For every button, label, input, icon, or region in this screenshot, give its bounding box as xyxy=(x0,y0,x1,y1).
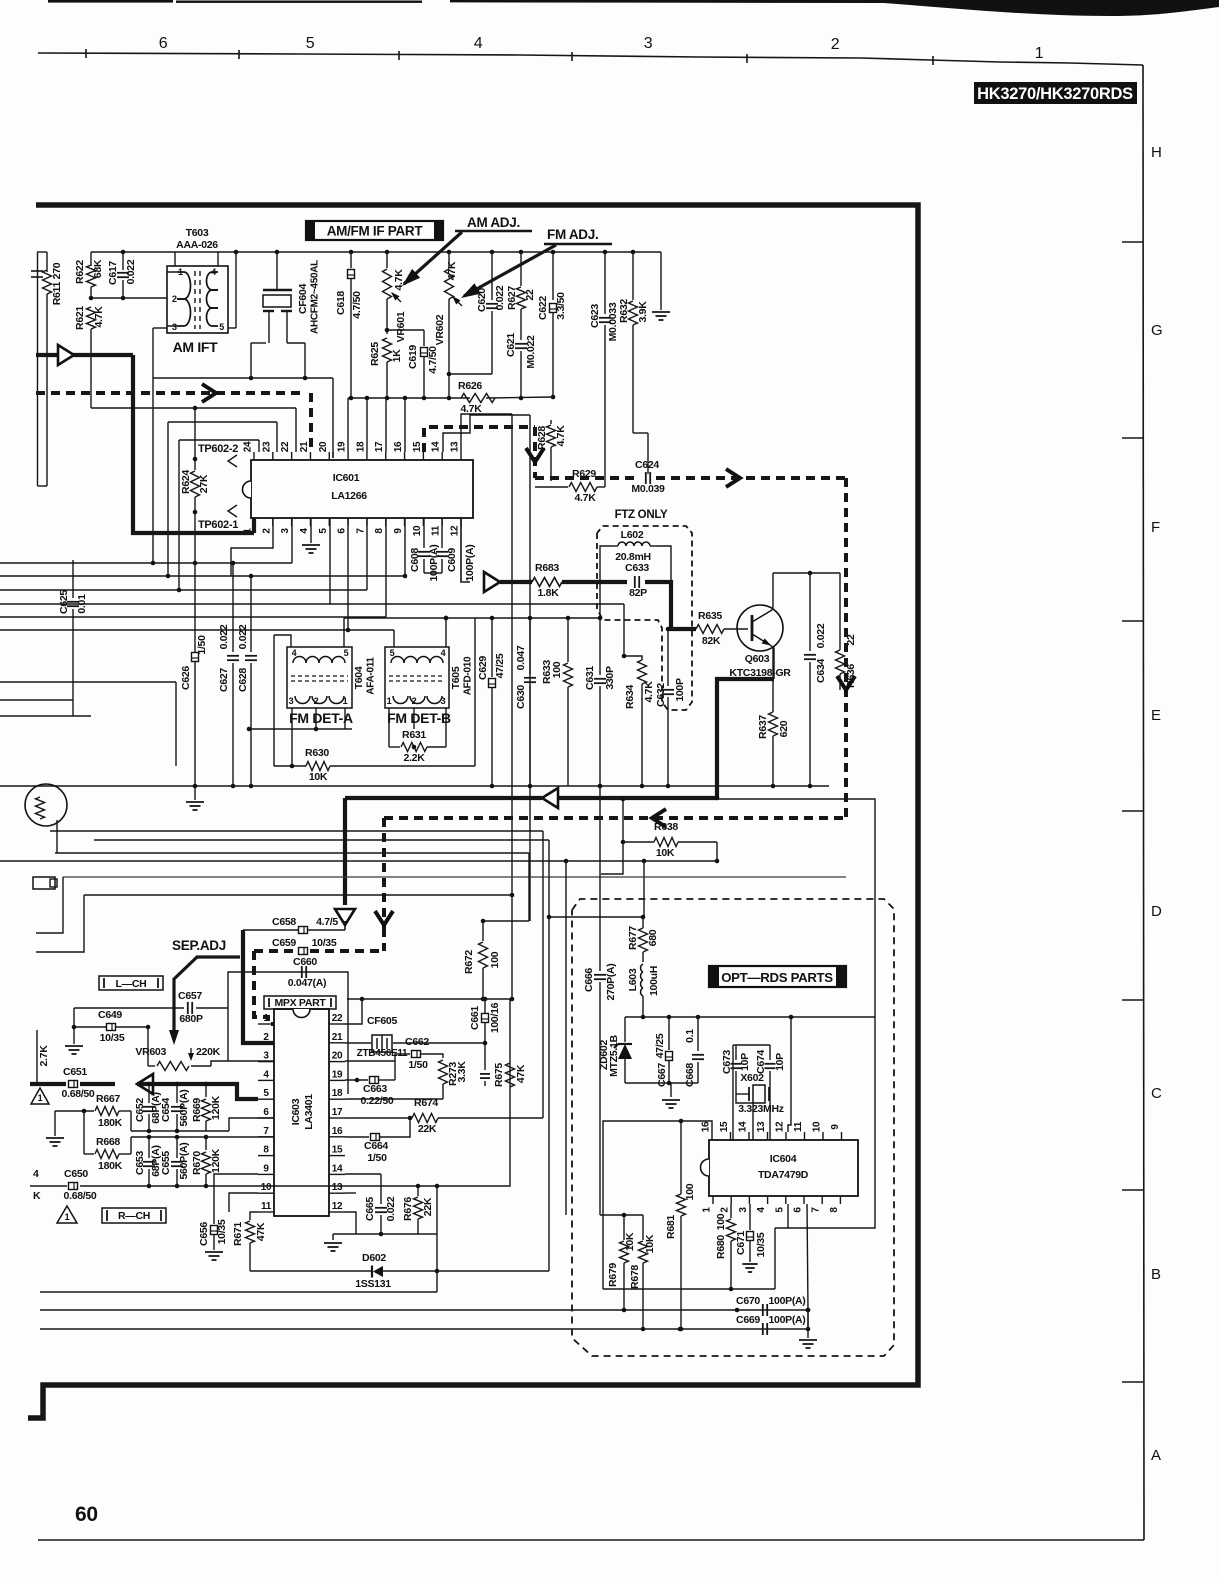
svg-text:120K: 120K xyxy=(210,1148,222,1173)
right page border xyxy=(1143,65,1144,1540)
svg-text:3: 3 xyxy=(172,322,177,332)
svg-text:E: E xyxy=(1151,707,1161,724)
svg-text:3.3/50: 3.3/50 xyxy=(555,292,567,320)
svg-text:C617: C617 xyxy=(107,261,119,285)
svg-text:C657: C657 xyxy=(178,990,202,1002)
svg-text:8: 8 xyxy=(263,1145,269,1156)
wire pin12 to gnd bus xyxy=(345,1212,356,1234)
svg-text:0.047(A): 0.047(A) xyxy=(288,977,326,989)
svg-text:2: 2 xyxy=(172,294,177,304)
svg-text:M0.022: M0.022 xyxy=(525,335,537,369)
capacitor C663 0.22/50 xyxy=(345,1079,368,1081)
svg-text:4: 4 xyxy=(211,267,216,277)
IC604 top pin stubs and numbers xyxy=(711,1132,713,1140)
svg-text:14: 14 xyxy=(738,1121,749,1132)
svg-text:C633: C633 xyxy=(625,562,649,574)
svg-text:5: 5 xyxy=(318,528,329,534)
svg-text:19: 19 xyxy=(332,1069,343,1080)
svg-text:7: 7 xyxy=(811,1207,822,1213)
T605 pin4 riser xyxy=(445,618,447,647)
resistor R633 100 xyxy=(567,618,569,662)
T604 pin1/3 legs xyxy=(291,708,293,766)
wire top rail xyxy=(91,251,661,253)
wire pin16 riser xyxy=(404,398,406,452)
page top edge bar middle xyxy=(176,1,422,3)
svg-text:HK3270/HK3270RDS: HK3270/HK3270RDS xyxy=(977,85,1133,103)
svg-text:C618: C618 xyxy=(335,291,347,315)
svg-text:R638: R638 xyxy=(654,821,678,833)
svg-text:11: 11 xyxy=(431,525,442,536)
svg-text:17: 17 xyxy=(374,441,385,452)
resistor R637 620 xyxy=(772,648,774,712)
resistor R680 100 xyxy=(730,1204,732,1218)
svg-text:100/16: 100/16 xyxy=(489,1002,501,1033)
long vertical pin14 net xyxy=(529,415,531,921)
svg-text:TP602-1: TP602-1 xyxy=(198,519,238,531)
svg-text:C652: C652 xyxy=(134,1098,146,1122)
resistor R677 680 xyxy=(642,917,644,928)
svg-text:4: 4 xyxy=(263,1069,269,1080)
svg-text:13: 13 xyxy=(756,1121,767,1132)
wire left bus 700 xyxy=(0,699,73,701)
svg-text:10K: 10K xyxy=(644,1234,656,1253)
svg-text:C662: C662 xyxy=(405,1036,429,1048)
capacitor C666 270P(A) xyxy=(599,786,601,971)
svg-text:22: 22 xyxy=(845,634,857,646)
grid ticks on right border xyxy=(1122,241,1143,243)
capacitor C654 560P(A) xyxy=(176,1084,178,1103)
ground IC601 pin4 xyxy=(310,518,312,543)
svg-text:560P(A): 560P(A) xyxy=(178,1090,190,1127)
svg-text:LA3401: LA3401 xyxy=(303,1094,315,1130)
svg-text:5: 5 xyxy=(774,1207,785,1213)
T604 pin4 riser xyxy=(274,635,291,647)
svg-text:LA1266: LA1266 xyxy=(331,490,367,502)
svg-text:4: 4 xyxy=(33,1168,39,1180)
wire VR602/C620 bottom loop xyxy=(449,373,492,375)
wire R632 to C624 xyxy=(633,432,648,434)
resistor R273 3.3K xyxy=(439,1060,448,1084)
model badge HK3270/HK3270RDS xyxy=(974,82,1137,104)
svg-text:0.022: 0.022 xyxy=(237,624,249,649)
resistor R626 4.7K xyxy=(461,394,495,403)
svg-text:C659: C659 xyxy=(272,937,296,949)
wire crystal bottom to pin14 xyxy=(736,1094,753,1140)
resistor R681 100 xyxy=(680,1121,682,1194)
svg-text:L—CH: L—CH xyxy=(116,978,147,990)
IC603 left pin stubs and numbers xyxy=(258,1023,274,1025)
svg-text:AFA-011: AFA-011 xyxy=(366,657,377,695)
capacitor C659 10/35 on dashed line xyxy=(299,948,308,955)
capacitor C653 68P(A) xyxy=(148,1137,150,1158)
wire pin24 feed xyxy=(179,439,259,441)
wire L602 left leg to C631 column xyxy=(600,546,612,583)
VR603 wiper xyxy=(190,1048,192,1058)
svg-text:FM DET-B: FM DET-B xyxy=(387,710,451,726)
svg-text:3: 3 xyxy=(738,1207,749,1213)
wire R668 riser to pin7 wire xyxy=(130,1137,132,1154)
resistor R669 120K xyxy=(205,1084,207,1097)
svg-text:C656: C656 xyxy=(198,1222,210,1246)
IC601 top pin stubs and numbers xyxy=(253,452,255,460)
svg-text:180K: 180K xyxy=(98,1160,123,1172)
resistor R627 22 xyxy=(520,252,522,286)
svg-text:R670: R670 xyxy=(191,1151,203,1175)
svg-text:2: 2 xyxy=(261,528,272,534)
svg-text:4: 4 xyxy=(474,35,483,52)
wire L602 right leg xyxy=(656,546,671,582)
capacitor C664 1/50 xyxy=(371,1134,380,1141)
resistor R630 10K xyxy=(274,765,306,767)
wire thin 799 to OPT rail xyxy=(717,799,875,1017)
dashed corner down with V arrow xyxy=(533,427,537,478)
svg-text:5: 5 xyxy=(306,35,315,52)
svg-text:OPT—RDS PARTS: OPT—RDS PARTS xyxy=(721,970,833,985)
boxed label R-CH xyxy=(102,1208,166,1223)
svg-text:4.7/5: 4.7/5 xyxy=(316,916,338,928)
svg-text:0.68/50: 0.68/50 xyxy=(62,1088,95,1100)
svg-text:100: 100 xyxy=(715,1213,727,1230)
svg-text:4.7K: 4.7K xyxy=(643,681,655,703)
svg-text:K: K xyxy=(33,1190,41,1202)
wire OPT right rail xyxy=(775,1017,875,1228)
svg-text:C632: C632 xyxy=(655,683,667,707)
svg-text:AM IFT: AM IFT xyxy=(173,339,219,355)
svg-text:R622: R622 xyxy=(74,260,86,284)
wire IC603 pin22 riser xyxy=(345,999,362,1024)
wire pin12 to thick FM out xyxy=(461,518,470,582)
svg-text:11: 11 xyxy=(261,1201,272,1212)
capacitor C652 68P(A) xyxy=(148,1084,150,1103)
dashed vertical right with V arrow xyxy=(844,478,848,818)
resistor R628 4.7K xyxy=(550,420,552,424)
wire OPT top rail xyxy=(625,1016,875,1018)
svg-text:220K: 220K xyxy=(196,1046,221,1058)
resistor R675 47K xyxy=(506,1063,515,1087)
svg-text:21: 21 xyxy=(332,1032,343,1043)
svg-text:47/25: 47/25 xyxy=(654,1033,666,1058)
vertical 566 net xyxy=(565,861,567,1215)
wire RDS data line C669 xyxy=(40,1328,808,1330)
dashed signal into pin21 xyxy=(36,391,305,395)
ceramic filter CF604 AHCFM2-450AL xyxy=(276,252,278,290)
svg-text:3.323MHz: 3.323MHz xyxy=(738,1103,784,1115)
svg-text:4.7/50: 4.7/50 xyxy=(351,291,363,319)
svg-text:4.7/50: 4.7/50 xyxy=(427,346,439,374)
resistor R679 10K xyxy=(600,1214,643,1216)
svg-text:14: 14 xyxy=(431,441,442,452)
svg-text:C670: C670 xyxy=(736,1295,760,1307)
svg-text:47K: 47K xyxy=(446,261,458,280)
svg-text:8: 8 xyxy=(374,528,385,534)
T605 legs to R631 loop xyxy=(388,708,390,747)
svg-text:B: B xyxy=(1151,1266,1161,1283)
svg-text:20.8mH: 20.8mH xyxy=(615,551,651,563)
svg-text:1K: 1K xyxy=(391,349,403,363)
svg-text:R629: R629 xyxy=(572,468,596,480)
svg-text:2.2K: 2.2K xyxy=(404,752,426,764)
wire left vertical 168 xyxy=(167,422,169,576)
capacitor C673 10P xyxy=(735,1045,737,1060)
svg-text:C660: C660 xyxy=(293,956,317,968)
connector stub box at left edge xyxy=(33,877,55,889)
resistor R632 3.9K xyxy=(632,252,634,300)
T603 pin1 xyxy=(174,252,176,266)
dashed wire pin15 riser xyxy=(424,427,535,452)
svg-text:15: 15 xyxy=(412,441,423,452)
svg-text:AHCFM2~450AL: AHCFM2~450AL xyxy=(310,260,321,334)
svg-text:100: 100 xyxy=(489,951,501,968)
VR601 wiper arrow xyxy=(392,293,401,302)
svg-text:47/25: 47/25 xyxy=(494,653,506,678)
svg-text:Q603: Q603 xyxy=(745,653,770,665)
svg-text:15: 15 xyxy=(332,1145,343,1156)
svg-text:2: 2 xyxy=(412,696,417,706)
svg-text:100P(A): 100P(A) xyxy=(769,1314,806,1326)
svg-text:0.022: 0.022 xyxy=(218,624,230,649)
thick FM IF output with arrow xyxy=(484,572,500,592)
schematic thick border xyxy=(28,205,918,1418)
svg-text:G: G xyxy=(1151,322,1162,339)
svg-text:6: 6 xyxy=(793,1207,804,1213)
svg-text:14: 14 xyxy=(332,1163,343,1174)
svg-text:560P(A): 560P(A) xyxy=(178,1143,190,1180)
wire bus 831 xyxy=(50,830,543,832)
IC601 bottom pin stubs and numbers xyxy=(253,518,255,526)
svg-text:C619: C619 xyxy=(407,345,419,369)
wire MPX bottom gnd bus xyxy=(333,1233,437,1235)
svg-text:FM DET-A: FM DET-A xyxy=(289,710,353,726)
resistor R634 4.7K xyxy=(623,604,625,656)
svg-text:17: 17 xyxy=(332,1107,343,1118)
svg-text:1: 1 xyxy=(65,1212,70,1222)
warning triangle 1 left xyxy=(31,1088,49,1104)
svg-text:VR603: VR603 xyxy=(135,1046,166,1058)
svg-text:2: 2 xyxy=(314,696,319,706)
svg-text:8: 8 xyxy=(829,1207,840,1213)
capacitor C631 330P xyxy=(599,583,601,675)
svg-text:22K: 22K xyxy=(422,1197,434,1216)
node R622/C617/T603p2 xyxy=(89,296,94,301)
svg-text:82K: 82K xyxy=(702,635,721,647)
wire pin5 drop xyxy=(787,1204,789,1228)
capacitor C656 10/35 xyxy=(211,1226,218,1235)
svg-text:9: 9 xyxy=(393,528,404,534)
svg-text:SEP.ADJ: SEP.ADJ xyxy=(172,938,226,953)
potentiometer VR603 220K xyxy=(147,1027,149,1066)
svg-text:620: 620 xyxy=(778,720,790,737)
svg-text:21: 21 xyxy=(299,441,310,452)
svg-text:FM ADJ.: FM ADJ. xyxy=(547,227,598,242)
svg-text:15: 15 xyxy=(719,1121,730,1132)
ruler ticks xyxy=(85,49,87,58)
wire bus 895 xyxy=(84,894,512,896)
ground det bus xyxy=(194,786,196,800)
T604 pin2 wire down xyxy=(315,708,317,729)
svg-text:3: 3 xyxy=(441,696,446,706)
svg-text:10: 10 xyxy=(261,1182,272,1193)
svg-text:10/35: 10/35 xyxy=(216,1219,228,1244)
wire C670 right to ground col xyxy=(807,1310,809,1329)
svg-text:C674: C674 xyxy=(755,1050,767,1074)
svg-text:0.022: 0.022 xyxy=(125,259,137,284)
capacitor C623 M0.0033 xyxy=(604,252,606,314)
svg-text:18: 18 xyxy=(332,1088,343,1099)
wire bus 840 xyxy=(94,839,549,841)
svg-text:R628: R628 xyxy=(536,426,548,450)
wire T603 pin3 down-right xyxy=(152,328,154,378)
T604 pin5 riser xyxy=(343,618,345,647)
wire into OPT R677 xyxy=(549,916,643,918)
label box AM/FM IF PART xyxy=(306,221,443,240)
wire bus 853 xyxy=(55,852,529,854)
svg-text:11: 11 xyxy=(793,1121,804,1132)
svg-text:0.1: 0.1 xyxy=(684,1029,696,1043)
wire left drop to C649 xyxy=(73,1008,75,1027)
svg-text:R637: R637 xyxy=(757,715,769,739)
wire thick from left to IC601 pin1 xyxy=(36,353,133,357)
wire loop right of IC603 xyxy=(437,999,512,1186)
svg-text:VR601: VR601 xyxy=(395,311,407,342)
svg-text:12: 12 xyxy=(775,1121,786,1132)
svg-text:12: 12 xyxy=(450,525,461,536)
svg-text:R636: R636 xyxy=(845,664,857,688)
svg-text:C654: C654 xyxy=(160,1098,172,1122)
svg-text:4.7K: 4.7K xyxy=(93,306,105,328)
svg-text:C669: C669 xyxy=(736,1314,760,1326)
svg-text:330P: 330P xyxy=(604,666,616,690)
T603 core dashes xyxy=(194,271,196,329)
svg-text:AAA-026: AAA-026 xyxy=(176,239,218,251)
svg-text:2: 2 xyxy=(263,1032,269,1043)
svg-text:TP602-2: TP602-2 xyxy=(198,443,238,455)
svg-text:C650: C650 xyxy=(64,1168,88,1180)
svg-text:27K: 27K xyxy=(198,474,210,493)
Q603 collector top rail xyxy=(773,572,840,574)
ground MPX bottom xyxy=(332,1234,334,1240)
svg-text:C663: C663 xyxy=(363,1083,387,1095)
svg-text:R676: R676 xyxy=(402,1197,414,1221)
svg-text:100: 100 xyxy=(551,661,563,678)
thick input C651 line xyxy=(30,1082,66,1086)
wire IC603 pin7 xyxy=(131,1136,274,1138)
svg-text:1: 1 xyxy=(178,267,183,277)
capacitor C662 1/50 xyxy=(412,1051,421,1058)
svg-text:C608: C608 xyxy=(409,548,421,572)
resistor R631 2.2K xyxy=(389,746,400,748)
svg-text:4.7K: 4.7K xyxy=(461,403,483,415)
svg-text:3: 3 xyxy=(289,696,294,706)
T603 pin5 xyxy=(228,327,236,329)
svg-text:12: 12 xyxy=(332,1201,343,1212)
svg-text:10K: 10K xyxy=(624,1232,636,1251)
resistor R672 100 xyxy=(482,921,484,941)
svg-text:C629: C629 xyxy=(477,656,489,680)
svg-text:R680: R680 xyxy=(715,1235,727,1259)
svg-text:2: 2 xyxy=(831,36,840,53)
svg-text:FTZ ONLY: FTZ ONLY xyxy=(615,509,668,521)
capacitor C661 100/16 xyxy=(482,1014,489,1023)
svg-text:100P(A): 100P(A) xyxy=(769,1295,806,1307)
svg-text:1: 1 xyxy=(263,1013,269,1024)
svg-text:AM/FM IF PART: AM/FM IF PART xyxy=(327,224,424,239)
svg-text:1: 1 xyxy=(387,696,392,706)
wire VR601 tap to C619 xyxy=(387,329,424,331)
IC IC601 LA1266 xyxy=(251,460,473,518)
diode D602 1SS131 xyxy=(250,1270,371,1272)
transistor at left edge xyxy=(25,784,67,826)
resistor R635 82K xyxy=(696,625,724,634)
vertical 529 net xyxy=(528,853,530,921)
node R677 top xyxy=(641,915,646,920)
svg-text:4.7K: 4.7K xyxy=(555,425,567,447)
dashed wire C659 to MPX pin1 xyxy=(254,949,298,953)
svg-text:82P: 82P xyxy=(629,587,647,599)
dashed line after C624 with arrow xyxy=(656,476,846,480)
VR602 wiper arrow xyxy=(453,297,462,306)
wire det top rail xyxy=(344,617,600,619)
svg-text:R672: R672 xyxy=(463,950,475,974)
wire R273 bottom to pin18 xyxy=(345,1098,443,1100)
zener ZD602 MTZ5.1B xyxy=(624,1017,626,1042)
svg-text:47K: 47K xyxy=(515,1064,527,1083)
svg-text:R667: R667 xyxy=(96,1093,120,1105)
svg-text:4.7K: 4.7K xyxy=(575,492,597,504)
capacitor C651 0.68/50 xyxy=(69,1081,78,1088)
wire pin13 stub link xyxy=(345,1192,356,1194)
capacitor C628 0.022 xyxy=(250,576,252,652)
wire R672 top link xyxy=(483,920,529,922)
wire IC603 pin10 stub xyxy=(229,1193,258,1212)
svg-text:3: 3 xyxy=(280,528,291,534)
svg-text:C653: C653 xyxy=(134,1151,146,1175)
IC IC603 LA3401 xyxy=(274,1009,329,1216)
svg-text:6: 6 xyxy=(263,1107,269,1118)
capacitor C627 0.022 xyxy=(232,563,234,652)
svg-text:1/50: 1/50 xyxy=(196,635,208,655)
svg-text:R683: R683 xyxy=(535,562,559,574)
wire C661 top link xyxy=(347,998,512,1000)
svg-text:1/50: 1/50 xyxy=(367,1152,387,1164)
svg-text:L602: L602 xyxy=(621,529,644,541)
svg-text:9: 9 xyxy=(263,1163,269,1174)
resistor R629 4.7K xyxy=(535,486,568,488)
svg-text:R632: R632 xyxy=(618,299,630,323)
svg-text:60: 60 xyxy=(75,1503,98,1526)
resistor R668 180K xyxy=(83,1111,85,1154)
transformer T605 AFD-010 FM DET-B xyxy=(385,647,449,708)
svg-text:100P(A): 100P(A) xyxy=(428,545,440,582)
svg-text:R624: R624 xyxy=(180,470,192,494)
capacitor C620 0.022 xyxy=(491,252,493,300)
svg-text:R669: R669 xyxy=(191,1098,203,1122)
CF604 leads xyxy=(268,311,270,343)
svg-text:4: 4 xyxy=(756,1207,767,1213)
svg-text:D: D xyxy=(1151,903,1162,920)
wire pin17 riser xyxy=(385,398,387,452)
long vertical from pin13 to MPX xyxy=(511,414,513,999)
svg-text:5: 5 xyxy=(263,1088,269,1099)
IC IC604 TDA7479D xyxy=(709,1140,858,1196)
wire left vertical 153 xyxy=(152,378,154,563)
svg-text:5: 5 xyxy=(344,648,349,658)
capacitor C622 3.3/50 xyxy=(552,252,554,300)
vertical 549 net xyxy=(548,840,550,1271)
svg-text:MTZ5.1B: MTZ5.1B xyxy=(608,1034,620,1076)
svg-text:5: 5 xyxy=(390,648,395,658)
svg-text:R626: R626 xyxy=(458,380,482,392)
svg-text:6: 6 xyxy=(337,528,348,534)
